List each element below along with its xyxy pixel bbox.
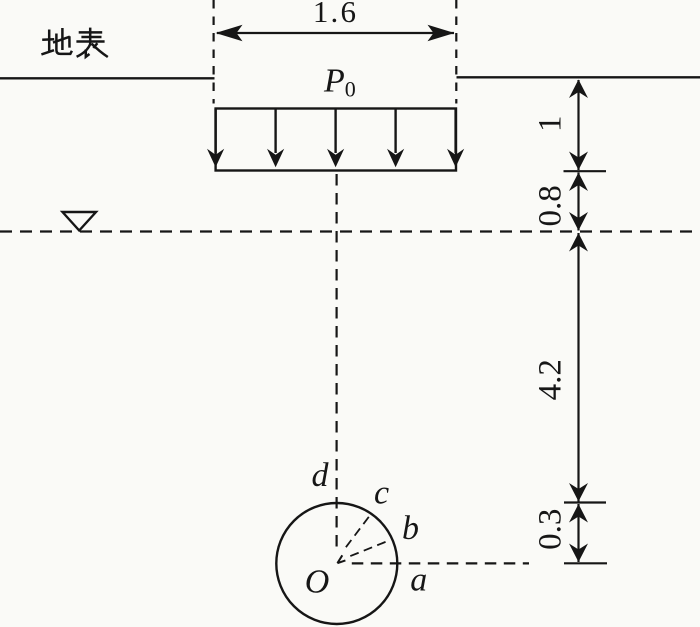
svg-text:O: O [305,564,330,601]
load arrow 5 head [447,149,464,168]
water table dashed line [0,230,700,232]
dimension 1.6 arrow line [217,32,454,34]
svg-text:a: a [410,562,427,599]
dimension segment 0.3 top arrowhead [569,504,588,523]
svg-text:1: 1 [533,116,569,133]
tunnel circle [276,503,397,624]
radial dashed ray O to c [346,516,369,547]
svg-text:0.8: 0.8 [533,185,569,226]
svg-text:d: d [312,457,330,494]
ground surface line right [457,76,700,78]
svg-text:b: b [402,510,419,547]
svg-text:0.3: 0.3 [533,509,569,550]
dimension segment 4.2 shaft [577,233,579,502]
dimension segment 1 shaft [577,80,579,170]
load arrow 1 head [207,149,224,168]
load arrow 5 shaft [454,109,456,154]
svg-text:4.2: 4.2 [533,359,569,400]
dimension 1.6 left arrowhead [216,25,243,41]
load arrow 4 head [387,149,404,168]
dimension segment 4.2 top arrowhead [569,233,588,252]
dimension segment 0.3 bottom arrowhead [569,544,588,563]
load arrow 1 shaft [214,109,216,154]
excavation edge dashed line left [213,0,215,104]
distributed load rectangle [216,109,456,171]
dimension 1.6 right arrowhead [428,25,455,41]
load arrow 4 shaft [394,109,396,154]
load arrow 3 shaft [334,109,336,154]
tick at load base level [564,170,607,172]
dimension segment 1 bottom arrowhead [569,152,588,171]
dimension segment 0.8 top arrowhead [569,173,588,192]
horizontal dashed ray O to a direction [352,562,529,564]
svg-text:c: c [374,475,389,512]
center line dashed vertical [336,174,338,550]
tick at tunnel axis level [564,562,607,564]
svg-text:1.6: 1.6 [313,0,358,29]
dimension segment 0.8 shaft [577,173,579,231]
ground surface line left [0,77,215,79]
dimension segment 0.8 bottom arrowhead [569,212,588,231]
water table symbol triangle [63,212,97,231]
load arrow 3 head [327,149,344,168]
dimension segment 0.3 shaft [577,504,579,562]
arrowhead at center O [337,555,345,563]
ground surface label 地表 (drawn strokes) [41,28,107,57]
tick at tunnel crown level [564,501,606,503]
dimension segment 4.2 bottom arrowhead [569,483,588,502]
load arrow 2 head [267,149,284,168]
dimension segment 1 top arrowhead [569,80,588,99]
load arrow 2 shaft [274,109,276,154]
excavation edge dashed line right [455,0,457,104]
radial dashed ray O to b [350,540,389,556]
